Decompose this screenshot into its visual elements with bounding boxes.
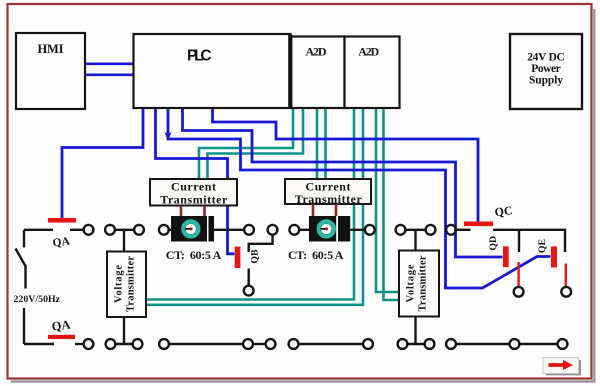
box current transmitter 1 bbox=[150, 179, 237, 206]
wire teal A2D2 pin2 to voltage transmitter VT1 bbox=[147, 109, 364, 305]
wire CT2 left stub bbox=[299, 229, 309, 231]
switch QE red lead bbox=[565, 264, 567, 287]
lead maroon CT1 left bbox=[180, 206, 183, 216]
svg-text:PLC: PLC bbox=[187, 48, 212, 65]
svg-text:Voltage: Voltage bbox=[406, 264, 417, 302]
wire mains riser upper bbox=[23, 230, 25, 248]
wire mains riser lower bbox=[23, 308, 25, 344]
red arrow icon bbox=[549, 360, 573, 370]
node terminal circle CT2 left bbox=[289, 225, 299, 235]
fuse QA top red bar bbox=[48, 218, 76, 223]
node terminal circle CT1 right bbox=[244, 225, 254, 235]
box current transmitter 2 bbox=[285, 179, 371, 204]
wire teal A2D1 pin3 to current transmitter CT2 bbox=[316, 108, 319, 179]
wire top bus VT1 pair bbox=[116, 229, 134, 231]
node terminal circle bottom right 1 bbox=[446, 339, 456, 349]
wire blue P3 PLC to fuse QE bbox=[168, 108, 551, 288]
node terminal circle bottom CT2 right bbox=[363, 339, 373, 349]
node terminal circle bottom VT2 left bbox=[398, 339, 408, 349]
wire bottom bus long segment 1 bbox=[169, 343, 243, 345]
box A2D 2 bbox=[345, 37, 400, 109]
node terminal circle VT2 pair right bbox=[426, 225, 436, 235]
wire mains riser middle bbox=[24, 266, 26, 289]
box PLC bbox=[134, 34, 291, 108]
box 24V DC power supply bbox=[510, 34, 582, 109]
box voltage transmitter 2 bbox=[399, 251, 439, 317]
svg-text:QB: QB bbox=[250, 249, 261, 264]
node terminal circle QD bbox=[514, 287, 524, 297]
wire top bus after fuse QC bbox=[493, 229, 565, 231]
wire switch QB upper bend bbox=[249, 235, 273, 252]
wire top bus to fuse QC bbox=[456, 229, 471, 231]
arrow button shadow bbox=[546, 360, 580, 374]
node terminal circle bottom VT1 right bbox=[133, 339, 143, 349]
fuse QE red bar bbox=[551, 246, 557, 267]
svg-text:CT: 60:5 A: CT: 60:5 A bbox=[288, 248, 344, 262]
svg-text:A2D: A2D bbox=[306, 44, 327, 58]
wire bottom bus long segment 2 bbox=[298, 343, 363, 345]
node terminal circle bottom mid 2 bbox=[266, 339, 276, 349]
switch QD red lead bbox=[517, 262, 519, 286]
fuse QC red bar bbox=[464, 222, 493, 227]
node terminal circle VT1 pair left bbox=[105, 225, 115, 235]
svg-text:QC: QC bbox=[494, 203, 514, 219]
node terminal circle bottom VT1 left bbox=[106, 339, 116, 349]
svg-text:Power: Power bbox=[531, 63, 561, 75]
node terminal circle CT2 right bbox=[365, 225, 375, 235]
node terminal circle CT1 left bbox=[159, 225, 169, 235]
wire top bus after switch QA bbox=[70, 229, 84, 231]
thick divider PLC/A2D bbox=[288, 35, 292, 109]
node terminal circle bottom CT1 left bbox=[159, 339, 169, 349]
fuse QD red bar bbox=[503, 246, 509, 267]
node terminal circle QC left bbox=[446, 225, 456, 235]
box A2D 1 bbox=[291, 37, 345, 109]
node terminal circle VT1 pair right bbox=[134, 225, 144, 235]
wire teal A2D2 pin3 to voltage transmitter VT2 bbox=[376, 109, 399, 292]
wire teal A2D1 pin4 to current transmitter CT2 bbox=[324, 108, 327, 179]
fuse QB red bar bbox=[235, 247, 241, 269]
svg-text:Transmitter: Transmitter bbox=[418, 255, 429, 311]
wire blue P2 PLC to fuse QB bbox=[156, 108, 235, 254]
node terminal circle QE bbox=[561, 287, 571, 297]
node terminal circle VT2 pair left bbox=[396, 225, 406, 235]
svg-text:Transmitter: Transmitter bbox=[160, 193, 228, 207]
node terminal circle bottom QA right bbox=[84, 339, 94, 349]
box HMI bbox=[16, 33, 85, 109]
svg-text:Current: Current bbox=[171, 180, 216, 194]
wire tap from VT1 bottom bbox=[123, 317, 125, 344]
node terminal circle QA right bbox=[84, 225, 94, 235]
wire tap to VT1 top bbox=[123, 230, 125, 252]
wire bottom bus after switch QA bbox=[75, 343, 84, 345]
current transformer CT1 body bbox=[171, 216, 214, 242]
lead maroon CT2 left bbox=[312, 204, 315, 216]
wire tap from VT2 bottom bbox=[414, 317, 416, 345]
svg-text:Transmitter: Transmitter bbox=[126, 256, 137, 312]
wire tap down to switch QD bbox=[518, 230, 520, 252]
arrowhead on wire P3 bbox=[165, 133, 172, 141]
wire tap down to switch QE bbox=[564, 229, 566, 252]
svg-text:24V DC: 24V DC bbox=[527, 52, 565, 64]
wire blue P5 PLC to fuse QC bbox=[213, 108, 479, 222]
arrow button bbox=[543, 358, 579, 374]
wire teal A2D1 pin1 to current transmitter CT1 bbox=[199, 108, 293, 179]
wire top bus VT2 pair bbox=[405, 229, 425, 231]
node terminal circle QB top bbox=[268, 225, 278, 235]
node terminal circle bottom right 3 bbox=[558, 339, 568, 349]
wire teal A2D2 pin1 to voltage transmitter VT1 bbox=[147, 109, 355, 300]
wire blue HMI-PLC link lower bbox=[85, 73, 134, 76]
svg-text:HMI: HMI bbox=[38, 42, 64, 56]
svg-text:220V/50Hz: 220V/50Hz bbox=[14, 294, 61, 305]
svg-text:QE: QE bbox=[537, 238, 548, 253]
wire CT2 right to circle bbox=[350, 229, 365, 231]
lead maroon CT2 right bbox=[335, 204, 338, 216]
svg-text:Voltage: Voltage bbox=[114, 265, 125, 303]
node terminal circle bottom right 2 bbox=[510, 339, 520, 349]
wire top bus left segment bbox=[24, 229, 53, 231]
current transformer CT2 body bbox=[309, 216, 350, 242]
wire bottom bus right segment 1 bbox=[456, 343, 510, 345]
wire tap to VT2 top bbox=[414, 230, 416, 251]
svg-text:QD: QD bbox=[488, 236, 499, 251]
node terminal circle bottom VT2 right bbox=[425, 339, 435, 349]
node terminal circle bottom CT2 left bbox=[289, 339, 299, 349]
svg-text:QA: QA bbox=[51, 317, 71, 333]
svg-text:CT: 60:5 A: CT: 60:5 A bbox=[166, 248, 222, 262]
wire bottom bus VT2 pair bbox=[407, 343, 424, 345]
wire blue P1 PLC to fuse QA bbox=[62, 108, 143, 218]
wire bottom bus short segment bbox=[253, 343, 266, 345]
wire blue HMI-PLC link upper bbox=[85, 62, 134, 65]
wire bottom bus left segment bbox=[24, 343, 54, 345]
wire teal A2D1 pin2 to current transmitter CT1 bbox=[208, 108, 304, 179]
svg-text:Transmitter: Transmitter bbox=[295, 192, 363, 206]
wire bottom bus right segment 2 bbox=[519, 343, 557, 345]
svg-text:Supply: Supply bbox=[529, 75, 563, 87]
svg-text:A2D: A2D bbox=[358, 44, 379, 58]
wire CT1 left stub bbox=[169, 229, 171, 231]
wire CT1 right to circle bbox=[214, 229, 244, 231]
node terminal circle QB bottom bbox=[244, 286, 254, 296]
box voltage transmitter 1 bbox=[107, 252, 146, 318]
wire bottom bus VT1 pair bbox=[115, 343, 132, 345]
switch blade mains bbox=[16, 249, 27, 268]
svg-text:QA: QA bbox=[52, 235, 71, 249]
wire switch QB lower stub bbox=[247, 269, 249, 286]
lead maroon CT1 right bbox=[203, 206, 206, 216]
wire blue P4 PLC to fuse QD bbox=[183, 108, 503, 257]
wire teal A2D2 pin4 to voltage transmitter VT2 bbox=[384, 109, 400, 300]
node terminal circle bottom mid 1 bbox=[243, 339, 253, 349]
fuse QA bottom red bar bbox=[48, 335, 75, 339]
